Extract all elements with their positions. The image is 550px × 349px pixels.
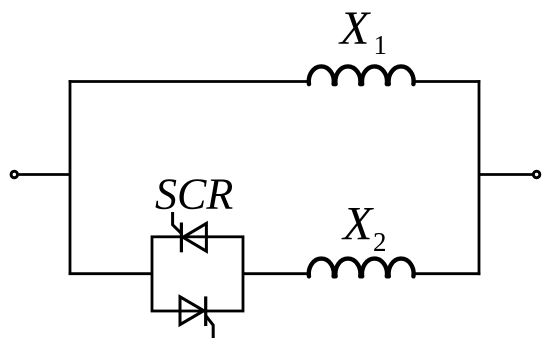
thyristor top gate bbox=[173, 212, 182, 233]
svg-text:X: X bbox=[338, 2, 371, 55]
inductor X1 bbox=[309, 66, 414, 84]
thyristor bottom cathode bar bbox=[204, 296, 207, 326]
thyristor bottom gate bbox=[206, 316, 214, 338]
terminal right bbox=[533, 171, 539, 177]
SCR bypass box bbox=[152, 237, 243, 311]
wire top branch left bbox=[69, 80, 308, 83]
thyristor bottom (right-pointing) triangle bbox=[180, 297, 204, 325]
wire left terminal to node bbox=[18, 173, 70, 176]
thyristor top triangle bbox=[183, 223, 206, 251]
wire node to right terminal bbox=[479, 173, 533, 176]
svg-text:SCR: SCR bbox=[155, 170, 233, 219]
svg-text:1: 1 bbox=[374, 30, 388, 60]
wire right vertical bus bbox=[478, 80, 481, 275]
svg-text:2: 2 bbox=[373, 227, 387, 257]
wire bottom branch right bbox=[414, 272, 480, 275]
thyristor top (left-pointing) cathode bar bbox=[180, 223, 183, 253]
inductor X2 bbox=[309, 259, 414, 277]
svg-text:X: X bbox=[341, 198, 374, 251]
wire left vertical bus bbox=[69, 80, 72, 275]
wire top branch right bbox=[414, 80, 480, 83]
terminal left bbox=[11, 171, 17, 177]
wire bottom branch middle bbox=[243, 272, 308, 275]
wire bottom branch left bbox=[69, 272, 152, 275]
